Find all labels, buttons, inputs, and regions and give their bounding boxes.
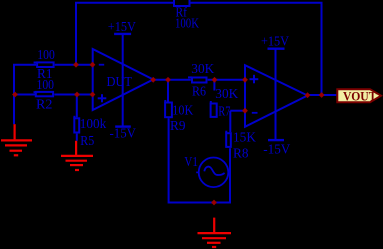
svg-text:15K: 15K bbox=[233, 131, 256, 146]
svg-text:R2: R2 bbox=[36, 98, 53, 113]
svg-text:VOUT: VOUT bbox=[343, 89, 377, 104]
svg-text:V1: V1 bbox=[184, 155, 198, 170]
svg-text:-15V: -15V bbox=[263, 143, 290, 158]
svg-text:+15V: +15V bbox=[261, 35, 289, 50]
svg-text:100K: 100K bbox=[175, 17, 199, 32]
svg-text:30K: 30K bbox=[215, 87, 238, 102]
svg-text:+15V: +15V bbox=[108, 20, 136, 35]
svg-text:30K: 30K bbox=[191, 62, 214, 77]
svg-text:R7: R7 bbox=[218, 105, 230, 120]
svg-text:100: 100 bbox=[37, 48, 55, 63]
svg-text:100: 100 bbox=[37, 78, 55, 93]
svg-text:R6: R6 bbox=[192, 84, 206, 99]
svg-text:R5: R5 bbox=[80, 134, 94, 149]
svg-text:DUT: DUT bbox=[107, 75, 133, 90]
svg-text:R8: R8 bbox=[233, 147, 249, 162]
svg-text:10K: 10K bbox=[172, 103, 193, 118]
svg-text:-15V: -15V bbox=[110, 127, 137, 142]
svg-text:100k: 100k bbox=[80, 117, 107, 132]
svg-text:R9: R9 bbox=[170, 119, 186, 134]
